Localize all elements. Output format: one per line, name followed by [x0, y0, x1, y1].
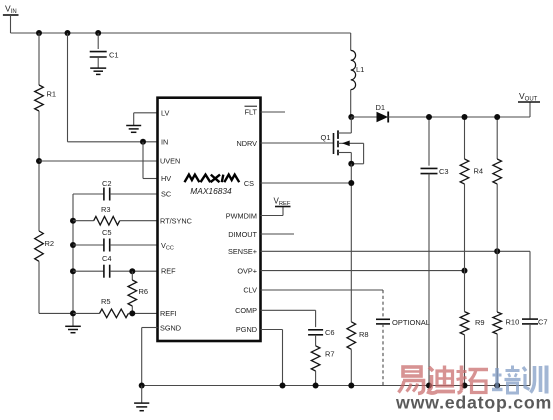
svg-text:C2: C2	[102, 179, 112, 188]
node VREF terminal	[261, 197, 291, 216]
node junction R10/rail	[494, 383, 500, 389]
node junction R8/rail	[348, 383, 354, 389]
svg-text:C1: C1	[109, 51, 119, 60]
resistor R6	[128, 271, 148, 313]
node VIN terminal	[3, 4, 19, 34]
svg-text:C4: C4	[102, 254, 112, 263]
svg-text:SENSE+: SENSE+	[228, 247, 257, 256]
node junction rail/C1	[95, 30, 101, 36]
svg-text:R5: R5	[101, 297, 111, 306]
node junction R7/rail	[313, 383, 319, 389]
transistor Q1 MOSFET	[261, 117, 364, 164]
svg-text:SGND: SGND	[160, 323, 181, 332]
svg-text:SC: SC	[161, 190, 171, 199]
node VOUT terminal	[518, 91, 540, 117]
wire COMP to C6	[261, 309, 316, 311]
svg-text:DIMOUT: DIMOUT	[228, 230, 257, 239]
node junction L1/Q1/D1	[348, 114, 354, 120]
svg-text:R10: R10	[506, 318, 520, 327]
node junction OVP+/R4/R9	[462, 268, 468, 274]
wire left bus vertical	[72, 194, 74, 313]
svg-text:R9: R9	[475, 318, 485, 327]
wire SENSE+ line	[261, 250, 531, 252]
inductor L1	[351, 33, 365, 117]
svg-text:PGND: PGND	[236, 325, 257, 334]
svg-text:R7: R7	[325, 350, 335, 359]
svg-text:C6: C6	[325, 328, 335, 337]
svg-text:PWMDIM: PWMDIM	[226, 211, 257, 220]
resistor R10	[493, 312, 519, 386]
node junction bus/R3	[70, 218, 76, 224]
wire CLV line	[261, 289, 384, 291]
svg-text:OVP+: OVP+	[237, 266, 257, 275]
node junction PGND/rail	[280, 383, 286, 389]
svg-text:HV: HV	[161, 174, 171, 183]
wire LV to ground	[134, 112, 158, 114]
capacitor OPTIONAL (dashed)	[376, 290, 430, 386]
svg-text:LV: LV	[161, 108, 170, 117]
node junction UVEN tap	[36, 158, 42, 164]
resistor R5	[73, 297, 178, 318]
capacitor C2	[73, 179, 158, 201]
svg-text:R6: R6	[139, 287, 149, 296]
capacitor C4	[73, 254, 158, 278]
svg-text:OPTIONAL: OPTIONAL	[392, 318, 430, 327]
svg-text:R8: R8	[359, 330, 369, 339]
node junction rail/IN column	[65, 30, 71, 36]
ground below C1	[90, 68, 106, 74]
capacitor C7	[522, 251, 548, 385]
svg-text:RT/SYNC: RT/SYNC	[160, 216, 192, 225]
svg-text:FLT: FLT	[245, 108, 258, 117]
resistor R7	[311, 346, 334, 386]
svg-text:CLV: CLV	[243, 286, 257, 295]
capacitor C6	[308, 328, 334, 346]
resistor R3	[73, 205, 158, 225]
svg-text:MAX16834: MAX16834	[190, 186, 232, 196]
svg-text:UVEN: UVEN	[160, 157, 180, 166]
svg-text:www.edatop.com: www.edatop.com	[395, 393, 552, 413]
resistor R8	[347, 322, 369, 386]
svg-text:C7: C7	[538, 318, 548, 327]
node junction rail/R1	[36, 30, 42, 36]
node junction Q1 source	[348, 161, 354, 167]
svg-text:CS: CS	[244, 179, 254, 188]
node junction rail/R4	[462, 114, 468, 120]
svg-text:C5: C5	[102, 228, 112, 237]
node junction bus/REFI	[70, 310, 76, 316]
wire Q1 source down to R8	[350, 164, 352, 322]
resistor R1	[35, 33, 56, 111]
ground at LV	[126, 126, 141, 133]
svg-text:R3: R3	[101, 205, 111, 214]
resistor load (LED string)	[493, 117, 502, 312]
ground main	[134, 386, 149, 411]
watermark text 易迪拓培训 www.edatop.com	[395, 366, 552, 413]
svg-text:REFI: REFI	[160, 309, 177, 318]
svg-text:C3: C3	[439, 167, 449, 176]
wire R1 to R2	[38, 111, 40, 231]
resistor R2	[35, 231, 54, 261]
capacitor C5	[73, 228, 158, 252]
node junction rail/C3	[426, 114, 432, 120]
IC MAXIM logo	[185, 175, 240, 183]
wire bus stub to ground	[72, 313, 74, 326]
svg-text:NDRV: NDRV	[236, 139, 257, 148]
node junction SGND/rail	[139, 383, 145, 389]
node junction bus/C4	[70, 268, 76, 274]
capacitor C1	[90, 33, 119, 68]
svg-text:L1: L1	[356, 65, 364, 74]
wire OVP+ line	[261, 270, 465, 272]
resistor R9	[460, 312, 484, 386]
node junction bus/C5	[70, 242, 76, 248]
wire R2 to REFI line	[38, 261, 40, 313]
wire top rail VIN to L1	[11, 32, 351, 34]
ground below bus	[65, 326, 81, 332]
node junction SENSE+/R10	[494, 248, 500, 254]
wire IN column	[67, 33, 69, 142]
wire CS to source column	[261, 182, 352, 184]
node junction CS	[348, 180, 354, 186]
op-amp U1 MAX16834 IC body	[158, 98, 261, 341]
wire SGND drop	[142, 327, 158, 329]
node junction R5/R6/REFI	[129, 310, 135, 316]
svg-text:REF: REF	[161, 267, 176, 276]
svg-text:IN: IN	[161, 137, 168, 146]
wire HV riser to IN	[142, 142, 144, 179]
diode D1	[351, 103, 530, 123]
node junction C3/rail	[426, 383, 432, 389]
svg-text:Q1: Q1	[321, 133, 331, 142]
resistor R4	[460, 117, 483, 312]
node junction C4/R6	[129, 268, 135, 274]
node junction rail/load	[494, 114, 500, 120]
capacitor C3	[421, 117, 449, 386]
wire PGND drop	[261, 329, 283, 331]
wire DIMOUT stub	[261, 233, 295, 235]
svg-text:R2: R2	[45, 239, 55, 248]
svg-text:COMP: COMP	[235, 306, 257, 315]
wire UVEN line to pin	[39, 160, 179, 162]
wire FLT stub	[261, 111, 286, 113]
svg-text:D1: D1	[376, 103, 386, 112]
node junction IN/HV	[140, 139, 146, 145]
svg-text:R4: R4	[474, 167, 484, 176]
wire bottom ground rail	[142, 385, 530, 387]
node junction R9/rail	[462, 383, 468, 389]
svg-text:R1: R1	[47, 90, 57, 99]
